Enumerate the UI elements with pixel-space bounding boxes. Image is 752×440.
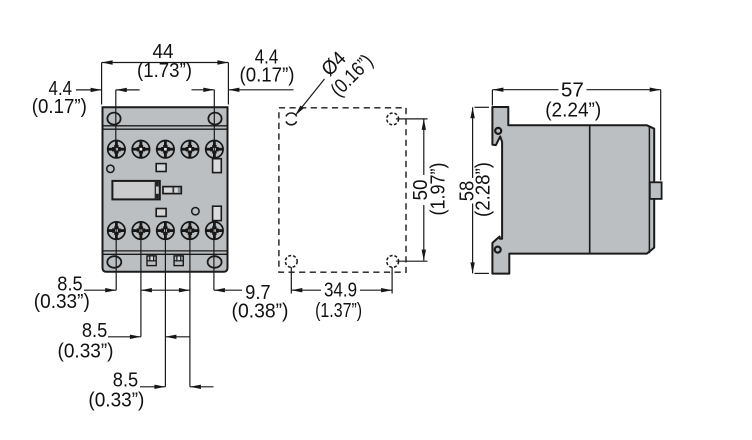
svg-text:34.9: 34.9	[324, 279, 357, 301]
dim 50 arrow bottom	[422, 250, 426, 261]
dim 57 arrow left	[492, 88, 503, 92]
screw top 4	[181, 141, 198, 158]
screw top 1	[108, 141, 125, 158]
small rect lower-middle	[156, 209, 166, 217]
side body divider	[589, 125, 591, 253]
hole bottom-right	[387, 256, 399, 268]
screw bottom 3	[157, 222, 174, 239]
dim 8.5 L3 arrow b	[190, 385, 201, 389]
dim 34.9 arrow right	[381, 288, 392, 292]
dim 44 arrow left	[102, 60, 113, 64]
svg-text:(2.28”): (2.28”)	[473, 162, 495, 217]
svg-text:8.5: 8.5	[82, 320, 107, 342]
dim 9.7 arrow a	[179, 288, 190, 292]
dim 50 line lower	[423, 205, 425, 261]
screw bottom 4	[181, 222, 198, 239]
dim 8.5 L2 arrow a	[130, 335, 141, 339]
dashed drilling rectangle	[279, 108, 406, 272]
extension line screw3 bottom	[164, 222, 166, 387]
dim 44 ext line right	[227, 63, 229, 105]
extension line screw2 bottom	[140, 222, 142, 337]
svg-text:(1.97”): (1.97”)	[428, 163, 450, 216]
dim 4.4 right arrow a	[203, 88, 214, 92]
clip pivot bottom	[495, 247, 501, 253]
dim L1 tail between	[141, 289, 190, 291]
hole top-right	[387, 113, 399, 125]
dim 58 ext top	[475, 106, 490, 108]
dim 44 line	[102, 62, 229, 64]
dim 8.5 L1 leader b	[105, 289, 116, 291]
small rect upper-middle	[156, 164, 166, 172]
dim 8.5 L2 arrow b	[165, 335, 176, 339]
svg-text:(0.17”): (0.17”)	[32, 96, 87, 118]
dim 8.5 L2 tail	[165, 336, 190, 338]
dim 9.7 leader	[214, 289, 242, 291]
side view silhouette	[492, 107, 654, 274]
dim 50 arrow top	[422, 119, 426, 130]
dim 4.4 right arrow b	[228, 88, 239, 92]
dim 58 arrow bottom	[470, 262, 474, 273]
screw top 2	[132, 141, 149, 158]
svg-text:(2.24”): (2.24”)	[545, 100, 601, 122]
svg-text:(1.37”): (1.37”)	[315, 300, 362, 322]
screw bottom 5	[206, 222, 223, 239]
dim 8.5 L1 arrow a	[105, 288, 116, 292]
connector block	[163, 187, 181, 194]
dim 8.5 L3 leader	[140, 386, 165, 388]
svg-text:(0.38”): (0.38”)	[232, 300, 289, 322]
dim 57 line left	[492, 89, 558, 91]
extension line screw5 top	[213, 90, 215, 158]
bottom-left mounting ellipse	[107, 256, 121, 268]
screw top 5	[206, 141, 223, 158]
dim 8.5 L3 arrow a	[154, 385, 165, 389]
dim 57 line right	[587, 89, 661, 91]
label window	[112, 181, 159, 200]
terminal screws (Phillips) top and bottom rows	[108, 141, 223, 240]
dim 34.9 line left	[291, 289, 321, 291]
small circle lower-right	[192, 208, 199, 215]
extension line screw5 bottom	[213, 222, 215, 290]
svg-text:8.5: 8.5	[113, 370, 138, 392]
dim 4.4 right leader	[228, 89, 293, 91]
svg-text:(0.33”): (0.33”)	[88, 389, 144, 411]
top-right mounting ellipse	[208, 113, 221, 125]
extension line screw4 bottom	[189, 222, 191, 387]
label slider channel	[154, 182, 156, 199]
dim 34.9 ext left	[290, 267, 292, 293]
dim 4.4 right tail a	[192, 89, 215, 91]
tall rect lower-right	[213, 206, 222, 220]
clip square right	[174, 256, 183, 266]
dim 8.5 L2 leader	[108, 336, 141, 338]
dim 4.4 left arrow a	[91, 88, 102, 92]
dim 8.5 L3 tail	[190, 386, 214, 388]
dim 44 arrow right	[217, 60, 228, 64]
dim 58 arrow top	[470, 107, 474, 118]
dia 4 leader arrow	[295, 106, 304, 116]
svg-text:(1.73”): (1.73”)	[137, 60, 192, 82]
dim 4.4 left leader	[76, 89, 102, 91]
dim 9.7 arrow b	[214, 288, 225, 292]
top strip double line	[103, 125, 228, 127]
screw bottom 1	[108, 222, 125, 239]
svg-text:57: 57	[561, 79, 584, 101]
dim 4.4 left tail	[116, 89, 140, 91]
dim 57 ext right	[660, 90, 662, 181]
dim 50 ext top	[396, 118, 428, 120]
small circle upper-left	[107, 165, 114, 172]
svg-text:(0.17”): (0.17”)	[240, 64, 295, 86]
top-left mounting ellipse	[107, 113, 120, 125]
dim 34.9 ext right	[391, 267, 393, 293]
bottom-right mounting ellipse	[208, 256, 222, 268]
dim 50 ext bottom	[396, 260, 428, 262]
dim 34.9 arrow left	[291, 288, 302, 292]
svg-text:(0.33”): (0.33”)	[58, 340, 114, 362]
screw bottom 2	[132, 222, 149, 239]
dim 58 line upper	[472, 107, 474, 178]
hole bottom-left	[285, 256, 297, 268]
hole top-left	[286, 113, 297, 116]
tall rect upper-right	[213, 159, 222, 173]
dim 58 ext bottom	[475, 272, 490, 274]
side right tab	[650, 182, 662, 199]
dim 4.4 left arrow b	[116, 88, 127, 92]
side body inner right edge	[648, 126, 650, 253]
screw top 3	[157, 141, 174, 158]
dim 8.5 L1 arrow b	[141, 288, 152, 292]
dim 57 ext left	[491, 90, 493, 106]
bottom strip double line	[103, 250, 228, 252]
dim 50 line upper	[423, 119, 425, 175]
contactor body front	[103, 107, 228, 271]
dim 58 line lower	[472, 204, 474, 274]
dim 44 ext line left	[101, 63, 103, 105]
clip square left	[147, 256, 156, 266]
extension line screw1 top	[115, 90, 117, 158]
dia 4 leader line	[296, 79, 325, 115]
svg-text:(0.33”): (0.33”)	[34, 291, 90, 313]
dim 57 arrow right	[650, 88, 661, 92]
clip pivot top	[495, 128, 501, 134]
extension line screw1 bottom	[115, 222, 117, 290]
dim 8.5 L1 leader	[84, 289, 105, 291]
dim 34.9 line right	[360, 289, 392, 291]
